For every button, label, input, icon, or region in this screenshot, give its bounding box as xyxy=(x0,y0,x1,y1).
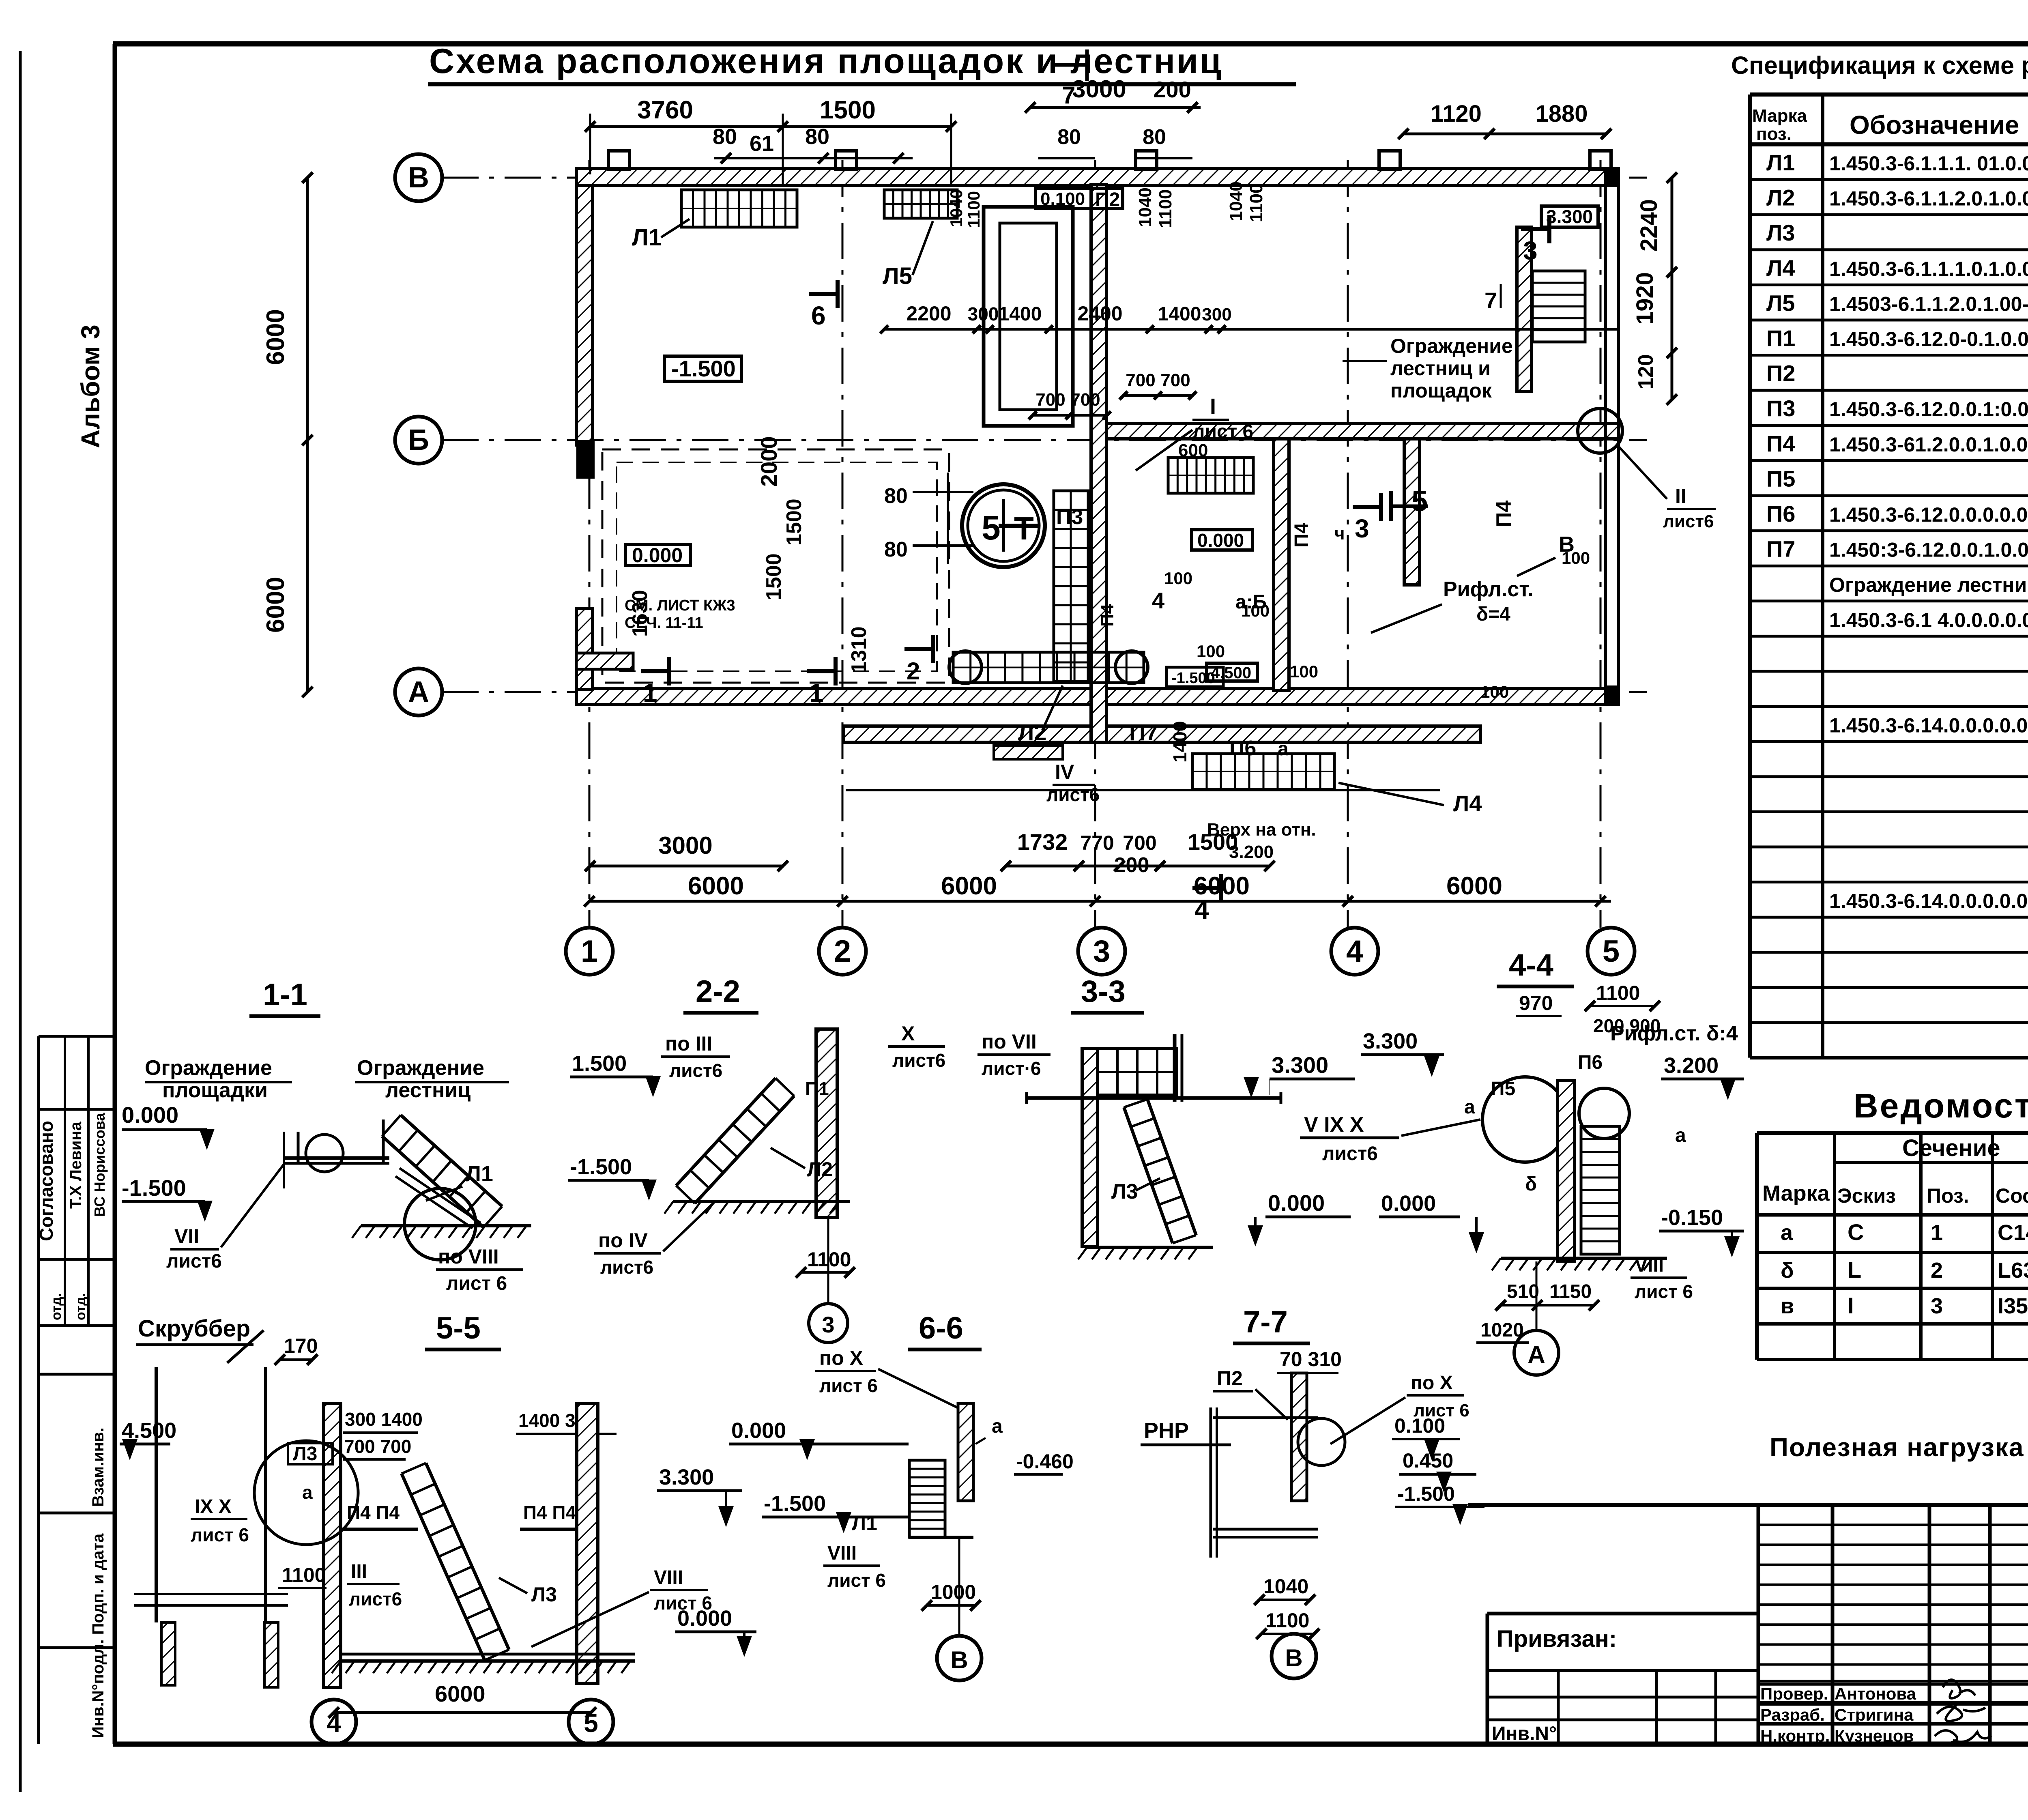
svg-text:1000: 1000 xyxy=(931,1581,976,1603)
svg-text:1100: 1100 xyxy=(964,191,983,228)
svg-text:7: 7 xyxy=(1062,82,1075,109)
svg-text:В: В xyxy=(950,1646,968,1674)
svg-text:0.000: 0.000 xyxy=(632,544,683,567)
svg-text:1732: 1732 xyxy=(1017,829,1068,855)
svg-text:5: 5 xyxy=(1411,485,1428,518)
svg-text:лист6: лист6 xyxy=(349,1588,402,1609)
svg-text:II: II xyxy=(1675,485,1686,507)
svg-text:I: I xyxy=(1210,394,1216,419)
svg-text:0.100: 0.100 xyxy=(1040,189,1085,209)
svg-text:1920: 1920 xyxy=(1632,272,1658,324)
svg-text:Кузнецов: Кузнецов xyxy=(1835,1726,1914,1745)
svg-text:Состав: Состав xyxy=(1996,1184,2028,1207)
svg-text:Рифл.ст.: Рифл.ст. xyxy=(1443,578,1534,601)
svg-text:300 1400: 300 1400 xyxy=(345,1409,423,1430)
svg-text:Л3: Л3 xyxy=(293,1443,317,1465)
svg-text:3: 3 xyxy=(822,1312,834,1337)
svg-text:700: 700 xyxy=(1126,370,1155,390)
svg-text:а: а xyxy=(302,1482,313,1503)
svg-text:6000: 6000 xyxy=(688,872,744,900)
svg-text:1.450.3-6.12.0.0.1:0.0-0.6: 1.450.3-6.12.0.0.1:0.0-0.6 xyxy=(1829,398,2028,421)
svg-text:лист6: лист6 xyxy=(166,1251,222,1272)
svg-text:Л1: Л1 xyxy=(466,1162,493,1186)
svg-text:Ограждение: Ограждение xyxy=(357,1056,484,1080)
svg-text:Ограждение: Ограждение xyxy=(1390,335,1513,357)
svg-text:δ: δ xyxy=(1525,1173,1537,1195)
svg-text:В: В xyxy=(408,161,429,194)
svg-text:0.100: 0.100 xyxy=(1394,1414,1445,1437)
svg-text:700: 700 xyxy=(1123,832,1156,854)
svg-text:поз.: поз. xyxy=(1756,124,1792,144)
svg-text:100: 100 xyxy=(1290,662,1318,681)
svg-text:80: 80 xyxy=(1143,125,1166,149)
svg-text:2200: 2200 xyxy=(906,302,951,325)
svg-text:1500: 1500 xyxy=(782,499,806,546)
svg-text:лист 6: лист 6 xyxy=(1635,1281,1693,1302)
svg-text:δ: δ xyxy=(1781,1258,1794,1283)
svg-text:лист 6: лист 6 xyxy=(827,1570,886,1591)
svg-text:Л2: Л2 xyxy=(1018,720,1046,745)
svg-text:Альбом 3: Альбом 3 xyxy=(76,324,105,448)
svg-text:1100: 1100 xyxy=(1156,189,1175,228)
svg-text:4: 4 xyxy=(1194,895,1209,924)
svg-text:0.000: 0.000 xyxy=(1268,1190,1325,1216)
svg-text:1.450.3-6.14.0.0.0.0.0.2-20: 1.450.3-6.14.0.0.0.0.0.2-20 xyxy=(1829,890,2028,913)
svg-text:Л2: Л2 xyxy=(807,1158,833,1181)
svg-text:120: 120 xyxy=(1634,354,1658,389)
svg-text:700 700: 700 700 xyxy=(344,1436,411,1457)
svg-text:3.300: 3.300 xyxy=(1546,206,1593,227)
svg-text:3.300: 3.300 xyxy=(1363,1029,1418,1053)
svg-text:1880: 1880 xyxy=(1535,101,1588,127)
svg-text:Взам.инв.: Взам.инв. xyxy=(89,1427,107,1507)
svg-text:170: 170 xyxy=(284,1334,318,1357)
svg-text:-1.500: -1.500 xyxy=(570,1155,632,1179)
svg-text:3760: 3760 xyxy=(637,96,693,124)
svg-text:VIII: VIII xyxy=(1635,1255,1664,1276)
svg-text:5: 5 xyxy=(584,1708,598,1738)
svg-text:IV: IV xyxy=(1055,761,1074,783)
svg-text:VIII: VIII xyxy=(827,1543,857,1564)
svg-text:1040: 1040 xyxy=(1226,181,1246,221)
svg-text:300: 300 xyxy=(1202,305,1231,324)
svg-text:П4 П4: П4 П4 xyxy=(347,1502,400,1523)
svg-text:1400: 1400 xyxy=(1158,303,1201,325)
svg-text:6000: 6000 xyxy=(262,577,290,633)
svg-text:П7: П7 xyxy=(1129,720,1158,745)
svg-text:7-7: 7-7 xyxy=(1243,1305,1288,1339)
svg-text:а: а xyxy=(1278,738,1289,760)
svg-text:6-6: 6-6 xyxy=(919,1311,963,1345)
svg-text:А: А xyxy=(408,676,429,708)
svg-text:VIII: VIII xyxy=(654,1567,683,1588)
svg-text:1310: 1310 xyxy=(847,626,871,673)
svg-text:П4 П4: П4 П4 xyxy=(523,1502,576,1523)
svg-text:по IV: по IV xyxy=(598,1229,648,1252)
svg-text:VII: VII xyxy=(174,1225,199,1248)
svg-text:80: 80 xyxy=(884,538,908,561)
svg-text:Антонова: Антонова xyxy=(1835,1684,1916,1703)
svg-text:Ограждение лестниц: Ограждение лестниц xyxy=(1829,574,2028,596)
svg-text:в: в xyxy=(1781,1294,1794,1318)
svg-text:1.450.3-6.12.0.0.0.0.0-05: 1.450.3-6.12.0.0.0.0.0-05 xyxy=(1829,503,2028,526)
svg-text:а: а xyxy=(1675,1125,1686,1146)
svg-text:2-2: 2-2 xyxy=(696,974,740,1009)
svg-text:1100: 1100 xyxy=(1265,1609,1309,1632)
svg-text:200: 200 xyxy=(1153,77,1191,102)
svg-text:6000: 6000 xyxy=(435,1681,486,1706)
svg-text:Стригина: Стригина xyxy=(1835,1705,1914,1724)
svg-text:Провер.: Провер. xyxy=(1760,1684,1828,1703)
svg-text:по III: по III xyxy=(665,1032,712,1055)
svg-text:П2: П2 xyxy=(1217,1367,1243,1390)
svg-text:3-3: 3-3 xyxy=(1081,974,1126,1009)
svg-text:С14: С14 xyxy=(1998,1220,2028,1245)
svg-text:I: I xyxy=(1848,1293,1854,1318)
svg-text:по X: по X xyxy=(1411,1372,1453,1394)
svg-text:6000: 6000 xyxy=(262,309,290,365)
svg-text:600: 600 xyxy=(1178,440,1208,460)
svg-text:П2: П2 xyxy=(1095,189,1120,211)
svg-text:1.450.3-61.2.0.0.1.0.0-16: 1.450.3-61.2.0.0.1.0.0-16 xyxy=(1829,433,2028,456)
svg-text:Т: Т xyxy=(1014,510,1034,546)
svg-text:Т.Х Левина: Т.Х Левина xyxy=(67,1122,85,1209)
svg-text:П7: П7 xyxy=(1766,536,1795,562)
svg-text:3: 3 xyxy=(1523,236,1538,265)
svg-text:1040: 1040 xyxy=(947,189,966,227)
svg-text:1.450.3-6.1.1.2.0.1.0.0-04: 1.450.3-6.1.1.2.0.1.0.0-04 xyxy=(1829,187,2028,210)
svg-text:3000: 3000 xyxy=(658,832,712,859)
svg-text:1400: 1400 xyxy=(999,303,1042,325)
svg-text:Скруббер: Скруббер xyxy=(138,1315,250,1342)
svg-text:3.200: 3.200 xyxy=(1664,1053,1719,1078)
svg-text:5: 5 xyxy=(1603,934,1620,969)
svg-text:лист6: лист6 xyxy=(1046,784,1100,805)
svg-text:лист6: лист6 xyxy=(892,1050,945,1071)
svg-text:970: 970 xyxy=(1519,992,1553,1014)
svg-text:80: 80 xyxy=(805,125,829,149)
svg-text:-1.500: -1.500 xyxy=(764,1491,826,1516)
svg-text:5-5: 5-5 xyxy=(436,1311,481,1345)
svg-text:700: 700 xyxy=(1160,370,1190,390)
svg-text:2: 2 xyxy=(834,934,851,969)
svg-text:а: а xyxy=(1781,1220,1793,1245)
svg-text:1.450:3-6.12.0.0.1.0.0-04: 1.450:3-6.12.0.0.1.0.0-04 xyxy=(1829,539,2028,561)
svg-text:100: 100 xyxy=(1164,569,1192,588)
svg-text:80: 80 xyxy=(1057,125,1081,149)
svg-text:Согласовано: Согласовано xyxy=(36,1121,57,1241)
svg-text:Л3: Л3 xyxy=(531,1583,557,1606)
svg-text:Сечение: Сечение xyxy=(1902,1135,2000,1161)
svg-text:Полезная нагрузка на площадки: Полезная нагрузка на площадки - 1.96 кПа xyxy=(1770,1433,2028,1462)
svg-text:100: 100 xyxy=(1197,642,1225,661)
svg-text:-1.500: -1.500 xyxy=(671,356,736,381)
svg-text:100: 100 xyxy=(1480,682,1509,701)
svg-text:Л4: Л4 xyxy=(1766,255,1795,281)
svg-text:Н.контр.: Н.контр. xyxy=(1760,1726,1830,1745)
svg-text:П1: П1 xyxy=(1766,325,1795,351)
svg-text:1040: 1040 xyxy=(1135,187,1155,227)
svg-text:L: L xyxy=(1848,1257,1861,1283)
svg-text:Привязан:: Привязан: xyxy=(1497,1626,1617,1652)
svg-text:П6: П6 xyxy=(1766,501,1795,526)
svg-text:Марка: Марка xyxy=(1762,1181,1830,1205)
svg-text:лист6: лист6 xyxy=(669,1060,722,1081)
svg-text:1100: 1100 xyxy=(282,1564,326,1586)
svg-text:1-1: 1-1 xyxy=(263,978,307,1012)
svg-text:1400: 1400 xyxy=(1169,721,1190,763)
svg-text:IX X: IX X xyxy=(195,1496,232,1517)
svg-text:-1.500: -1.500 xyxy=(1397,1483,1455,1505)
svg-text:лист6: лист6 xyxy=(1322,1143,1378,1165)
svg-text:С: С xyxy=(1848,1219,1864,1245)
svg-text:-1.500: -1.500 xyxy=(1171,670,1215,687)
svg-text:Л5: Л5 xyxy=(1766,290,1795,316)
svg-text:Инв.N°подл. Подп. и дата: Инв.N°подл. Подп. и дата xyxy=(89,1533,107,1738)
svg-text:отд.: отд. xyxy=(49,1293,64,1320)
svg-text:Поз.: Поз. xyxy=(1927,1184,1969,1207)
svg-text:L63×5: L63×5 xyxy=(1998,1258,2028,1283)
svg-text:Л3: Л3 xyxy=(1766,220,1795,245)
svg-text:I35Б1: I35Б1 xyxy=(1998,1294,2028,1318)
svg-text:Спецификация к схеме расположе: Спецификация к схеме расположения пло xyxy=(1731,52,2028,79)
svg-text:Обозначение: Обозначение xyxy=(1850,110,2019,140)
svg-text:1150: 1150 xyxy=(1549,1281,1592,1302)
svg-text:0.000: 0.000 xyxy=(1381,1191,1436,1216)
svg-text:-0.150: -0.150 xyxy=(1661,1205,1723,1230)
svg-text:Инв.N°: Инв.N° xyxy=(1492,1723,1557,1745)
svg-text:Л1: Л1 xyxy=(852,1512,877,1534)
svg-text:лист6: лист6 xyxy=(1663,511,1714,531)
svg-text:0.000: 0.000 xyxy=(731,1418,786,1443)
svg-text:4: 4 xyxy=(327,1708,341,1738)
svg-text:700: 700 xyxy=(1035,390,1065,410)
svg-text:ч: ч xyxy=(1334,524,1345,544)
svg-text:П2: П2 xyxy=(1766,361,1795,386)
svg-text:П6: П6 xyxy=(1578,1052,1603,1073)
svg-text:Эскиз: Эскиз xyxy=(1837,1184,1896,1207)
svg-text:В: В xyxy=(1285,1644,1302,1672)
svg-text:а: а xyxy=(992,1416,1003,1437)
svg-text:ВС Нориссова: ВС Нориссова xyxy=(91,1113,108,1217)
svg-text:лист 6: лист 6 xyxy=(819,1375,878,1396)
svg-text:100: 100 xyxy=(1562,548,1590,567)
svg-text:-0.460: -0.460 xyxy=(1016,1450,1074,1473)
svg-text:П6: П6 xyxy=(1229,737,1256,760)
svg-text:Л1: Л1 xyxy=(1766,150,1795,175)
svg-text:П4: П4 xyxy=(1766,431,1795,456)
svg-text:3: 3 xyxy=(1355,514,1369,543)
svg-text:6: 6 xyxy=(811,301,826,330)
svg-text:1.450.3-6.1 4.0.0.0.0.0.0: 1.450.3-6.1 4.0.0.0.0.0.0 xyxy=(1829,609,2028,632)
svg-text:-1.500: -1.500 xyxy=(122,1175,186,1201)
svg-text:3.300: 3.300 xyxy=(659,1465,714,1489)
svg-text:лист6: лист6 xyxy=(600,1257,653,1278)
svg-text:лист·6: лист·6 xyxy=(982,1058,1041,1079)
svg-text:1.4503-6.1.1.2.0.1.00-01: 1.4503-6.1.1.2.0.1.00-01 xyxy=(1829,292,2028,315)
svg-text:1040: 1040 xyxy=(1263,1575,1308,1598)
svg-text:3.200: 3.200 xyxy=(1229,842,1274,862)
svg-text:2240: 2240 xyxy=(1636,199,1662,251)
svg-text:2: 2 xyxy=(1931,1258,1943,1283)
svg-text:по X: по X xyxy=(819,1347,863,1369)
svg-text:5: 5 xyxy=(982,509,1001,547)
svg-text:П4: П4 xyxy=(1291,523,1313,548)
svg-text:а:Б: а:Б xyxy=(1235,591,1267,613)
svg-text:отд.: отд. xyxy=(73,1293,88,1320)
svg-text:1: 1 xyxy=(1931,1220,1943,1245)
svg-text:РНР: РНР xyxy=(1144,1418,1189,1443)
svg-text:3: 3 xyxy=(1931,1294,1943,1318)
svg-text:X: X xyxy=(901,1022,915,1045)
svg-text:лист 6: лист 6 xyxy=(191,1524,249,1545)
svg-text:1.450.3-6.12.0-0.1.0.0-05: 1.450.3-6.12.0-0.1.0.0-05 xyxy=(1829,328,2028,350)
svg-text:Л3: Л3 xyxy=(1111,1180,1138,1203)
svg-text:Ведомость элементов: Ведомость элементов xyxy=(1854,1087,2028,1125)
svg-text:6000: 6000 xyxy=(941,872,997,900)
svg-text:4: 4 xyxy=(1346,934,1363,969)
svg-text:по VIII: по VIII xyxy=(438,1245,499,1268)
svg-text:П3: П3 xyxy=(1766,395,1795,421)
svg-text:3000: 3000 xyxy=(1072,75,1126,103)
svg-text:0.450: 0.450 xyxy=(1403,1449,1453,1472)
svg-text:П1: П1 xyxy=(805,1078,829,1099)
svg-text:80: 80 xyxy=(884,484,908,508)
svg-text:1.450.3-6.1.1.1.0.1.0.0-07: 1.450.3-6.1.1.1.0.1.0.0-07 xyxy=(1829,258,2028,280)
svg-text:4-4: 4-4 xyxy=(1509,948,1553,982)
svg-text:П4: П4 xyxy=(1492,501,1516,527)
svg-text:площадок: площадок xyxy=(1390,379,1492,402)
svg-text:4: 4 xyxy=(1152,588,1164,613)
svg-text:0.000: 0.000 xyxy=(677,1606,732,1631)
svg-text:1: 1 xyxy=(581,934,598,969)
svg-text:СЕЧ. 11-11: СЕЧ. 11-11 xyxy=(625,615,703,632)
svg-text:лестниц и: лестниц и xyxy=(1390,357,1491,380)
svg-text:1500: 1500 xyxy=(820,96,876,124)
svg-text:П5: П5 xyxy=(1766,466,1795,491)
svg-text:Л5: Л5 xyxy=(883,263,912,289)
svg-text:Разраб.: Разраб. xyxy=(1760,1705,1825,1724)
svg-text:770: 770 xyxy=(1080,832,1114,854)
svg-text:80: 80 xyxy=(713,125,737,149)
svg-text:6000: 6000 xyxy=(1446,872,1502,900)
svg-text:1.450.3-6.14.0.0.0.0.0.1 - 20: 1.450.3-6.14.0.0.0.0.0.1 - 20 xyxy=(1829,714,2028,737)
svg-text:Б: Б xyxy=(408,424,429,456)
svg-text:510: 510 xyxy=(1507,1281,1539,1302)
svg-text:2000: 2000 xyxy=(756,436,782,487)
svg-text:0.000: 0.000 xyxy=(1197,530,1244,551)
svg-text:1100: 1100 xyxy=(1596,982,1640,1004)
svg-text:7: 7 xyxy=(1484,288,1497,313)
svg-text:3.300: 3.300 xyxy=(1272,1052,1328,1078)
svg-text:III: III xyxy=(351,1561,367,1582)
svg-text:1020: 1020 xyxy=(1480,1319,1524,1341)
svg-text:Схема расположения площадок: Схема расположения площадок и лестниц xyxy=(429,42,1223,81)
svg-text:3: 3 xyxy=(1093,934,1110,969)
svg-text:1500: 1500 xyxy=(762,553,786,600)
svg-text:700: 700 xyxy=(1070,390,1100,410)
svg-text:СМ. ЛИСТ КЖ3: СМ. ЛИСТ КЖ3 xyxy=(625,597,735,614)
svg-text:1100: 1100 xyxy=(1246,184,1266,222)
svg-text:лист 6: лист 6 xyxy=(446,1273,507,1294)
svg-text:а: а xyxy=(1464,1096,1475,1118)
svg-text:200: 200 xyxy=(1114,853,1149,877)
svg-text:δ=4: δ=4 xyxy=(1476,604,1510,625)
svg-text:1.450.3-6.1.1.1. 01.0.0-01: 1.450.3-6.1.1.1. 01.0.0-01 xyxy=(1829,152,2028,175)
svg-text:2400: 2400 xyxy=(1077,302,1122,325)
svg-text:61: 61 xyxy=(750,131,774,156)
svg-text:лист 6: лист 6 xyxy=(1192,421,1253,443)
svg-text:V IX X: V IX X xyxy=(1304,1113,1364,1137)
svg-text:по VII: по VII xyxy=(982,1030,1037,1053)
svg-text:Л4: Л4 xyxy=(1453,791,1482,816)
svg-text:300: 300 xyxy=(968,303,999,324)
svg-text:1.500: 1.500 xyxy=(572,1051,627,1076)
svg-text:Л2: Л2 xyxy=(1766,185,1795,211)
svg-text:П3: П3 xyxy=(1056,505,1083,529)
svg-text:1120: 1120 xyxy=(1431,101,1482,127)
svg-text:Рифл.ст. δ:4: Рифл.ст. δ:4 xyxy=(1610,1022,1738,1045)
svg-text:Верх на отн.: Верх на отн. xyxy=(1207,820,1316,840)
svg-text:Ограждение: Ограждение xyxy=(145,1056,272,1080)
svg-text:Л1: Л1 xyxy=(632,224,662,251)
svg-text:0.000: 0.000 xyxy=(122,1102,178,1128)
svg-text:П4: П4 xyxy=(1098,604,1117,627)
svg-text:Марка: Марка xyxy=(1752,106,1807,126)
svg-text:70 310: 70 310 xyxy=(1280,1348,1342,1371)
svg-text:А: А xyxy=(1527,1341,1545,1368)
